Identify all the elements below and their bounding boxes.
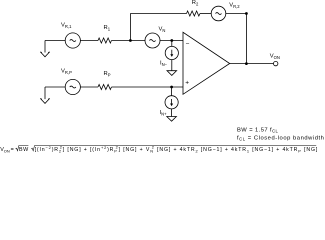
node A (feedback tap) <box>129 39 132 42</box>
wire <box>171 60 173 71</box>
node B (IN- tap) <box>170 39 173 42</box>
svg-text:BW = 1.57 fCL: BW = 1.57 fCL <box>237 127 279 133</box>
wire <box>45 86 65 88</box>
svg-text:+: + <box>185 79 189 86</box>
node E (IN+ tap) <box>170 86 173 89</box>
svg-text:VON: VON <box>0 147 10 154</box>
wire feedback up <box>129 14 131 41</box>
svg-text:−: − <box>186 41 190 48</box>
svg-text:R1: R1 <box>104 25 111 31</box>
voltage source VRP <box>65 79 80 94</box>
wire <box>171 41 173 47</box>
wire <box>160 40 183 42</box>
svg-text:fCL = Closed-loop bandwidth: fCL = Closed-loop bandwidth <box>237 135 324 141</box>
wire feedback top <box>130 13 186 15</box>
resistor R1 <box>98 38 111 43</box>
svg-text:IN−: IN− <box>160 61 168 67</box>
resistor R2 <box>187 11 200 16</box>
svg-text:VON: VON <box>270 54 280 60</box>
radical sign over radicand <box>31 146 316 151</box>
wire <box>200 13 211 15</box>
op-amp U1 <box>183 32 230 94</box>
ground G4 (below IN+) <box>167 117 177 122</box>
wire <box>171 109 173 117</box>
wire <box>112 40 146 42</box>
svg-text:VN: VN <box>159 27 166 33</box>
wire <box>171 87 173 96</box>
wire <box>226 13 247 15</box>
voltage source VR1 <box>65 33 80 48</box>
terminal VON <box>274 61 278 65</box>
svg-text:R2: R2 <box>192 0 199 6</box>
wire <box>45 40 65 42</box>
ground G3 (left, non-inverting branch) <box>40 87 49 103</box>
current source IN+ <box>165 96 178 109</box>
node D (output junction) <box>245 62 248 65</box>
svg-text:VR,1: VR,1 <box>61 23 72 29</box>
svg-text:VR,P: VR,P <box>61 69 72 75</box>
ground G1 (left, inverting branch) <box>40 41 49 57</box>
svg-text:=: = <box>11 147 14 153</box>
resistor RP <box>98 85 111 90</box>
svg-text:VR,2: VR,2 <box>229 3 240 9</box>
current source IN- <box>165 46 178 59</box>
wire feedback down <box>245 14 247 64</box>
wire <box>80 40 98 42</box>
svg-text:IN+: IN+ <box>160 110 168 116</box>
svg-text:[(In−2)R22] [NG] + [(In+2)RP2]: [(In−2)R22] [NG] + [(In+2)RP2] [NG] + VN… <box>35 145 319 154</box>
node C (feedback corner) <box>245 12 248 15</box>
wire <box>80 86 98 88</box>
formula VON <box>0 145 318 154</box>
voltage source VR2 <box>211 6 226 21</box>
ground G2 (below IN-) <box>167 71 177 76</box>
voltage source VN <box>145 33 160 48</box>
svg-text:BW: BW <box>19 147 29 153</box>
wire <box>112 86 184 88</box>
radical sign over BW <box>16 146 29 151</box>
svg-text:RP: RP <box>104 71 111 77</box>
wire output <box>230 63 274 65</box>
